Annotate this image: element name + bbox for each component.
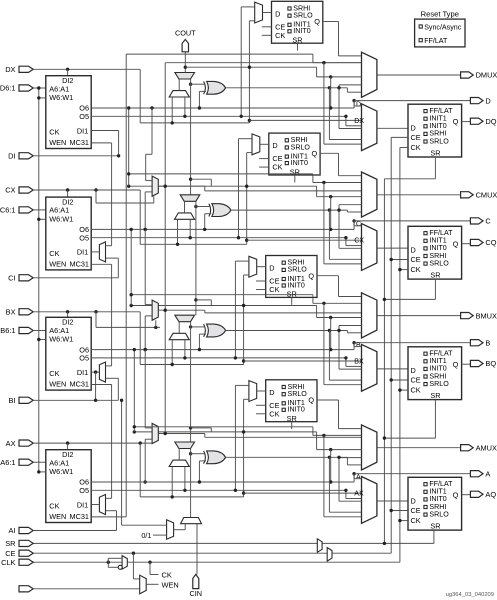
- svg-text:WEN: WEN: [49, 512, 66, 521]
- svg-text:INIT0: INIT0: [293, 27, 310, 35]
- svg-text:D: D: [275, 9, 280, 18]
- svg-text:SR: SR: [292, 36, 302, 45]
- svg-text:MC31: MC31: [70, 512, 89, 521]
- svg-text:CLK: CLK: [1, 558, 15, 567]
- svg-text:D: D: [269, 388, 274, 397]
- svg-text:CE: CE: [5, 549, 15, 558]
- svg-text:CE: CE: [411, 376, 421, 385]
- svg-text:DX: DX: [5, 65, 15, 74]
- svg-text:SRLO: SRLO: [291, 143, 311, 151]
- svg-text:SR: SR: [287, 290, 297, 299]
- svg-text:FF/LAT: FF/LAT: [424, 37, 448, 45]
- svg-text:CX: CX: [354, 238, 364, 245]
- svg-text:SRLO: SRLO: [293, 12, 313, 20]
- svg-text:MC31: MC31: [70, 259, 89, 268]
- svg-text:A: A: [485, 469, 490, 478]
- svg-text:SR: SR: [290, 167, 300, 176]
- svg-text:DI: DI: [8, 152, 15, 161]
- svg-text:AQ: AQ: [485, 490, 496, 499]
- svg-text:O5: O5: [79, 486, 89, 495]
- svg-text:W6:W1: W6:W1: [49, 214, 73, 223]
- svg-text:SRLO: SRLO: [429, 380, 449, 388]
- svg-text:B: B: [485, 338, 490, 347]
- svg-text:W6:W1: W6:W1: [49, 467, 73, 476]
- svg-text:CK: CK: [269, 285, 279, 294]
- svg-text:CK: CK: [49, 128, 59, 137]
- svg-text:BX: BX: [354, 359, 364, 366]
- svg-text:CK: CK: [411, 516, 421, 525]
- svg-text:CK: CK: [49, 369, 59, 378]
- svg-text:Reset Type: Reset Type: [421, 10, 459, 19]
- svg-text:CE: CE: [411, 133, 421, 142]
- svg-text:SR: SR: [287, 414, 297, 423]
- svg-text:DX: DX: [354, 118, 364, 125]
- svg-text:AX: AX: [6, 439, 16, 448]
- svg-text:O5: O5: [79, 233, 89, 242]
- svg-text:CE: CE: [411, 506, 421, 515]
- svg-text:CX: CX: [5, 186, 15, 195]
- svg-text:Sync/Async: Sync/Async: [424, 23, 462, 31]
- svg-text:W6:W1: W6:W1: [49, 335, 73, 344]
- svg-text:SR: SR: [430, 522, 440, 531]
- svg-text:CE: CE: [411, 255, 421, 264]
- svg-text:SRLO: SRLO: [288, 266, 308, 274]
- svg-text:D: D: [269, 264, 274, 273]
- svg-text:CK: CK: [411, 386, 421, 395]
- svg-text:CK: CK: [269, 409, 279, 418]
- svg-text:Q: Q: [314, 17, 320, 26]
- svg-text:WEN: WEN: [49, 138, 66, 147]
- svg-text:D: D: [272, 141, 277, 150]
- svg-text:CK: CK: [49, 502, 59, 511]
- svg-text:MC31: MC31: [70, 380, 89, 389]
- svg-text:SR: SR: [430, 391, 440, 400]
- svg-text:O5: O5: [79, 112, 89, 121]
- svg-text:DI1: DI1: [77, 248, 88, 257]
- svg-text:BX: BX: [6, 308, 16, 317]
- svg-text:C: C: [356, 221, 361, 228]
- svg-text:BMUX: BMUX: [476, 311, 497, 320]
- svg-text:O5: O5: [79, 354, 89, 363]
- svg-text:CIN: CIN: [190, 589, 203, 598]
- svg-text:SR: SR: [430, 271, 440, 280]
- svg-text:SR: SR: [5, 539, 15, 548]
- svg-text:SRLO: SRLO: [429, 510, 449, 518]
- svg-text:WEN: WEN: [49, 259, 66, 268]
- svg-text:B6:1: B6:1: [0, 326, 15, 335]
- svg-text:SRLO: SRLO: [429, 137, 449, 145]
- svg-text:Q: Q: [453, 490, 459, 499]
- svg-text:WEN: WEN: [49, 380, 66, 389]
- svg-text:Q: Q: [453, 360, 459, 369]
- svg-text:INIT0: INIT0: [288, 406, 305, 414]
- svg-text:Q: Q: [308, 396, 314, 405]
- svg-text:ug364_03_040209: ug364_03_040209: [446, 592, 494, 598]
- svg-text:D: D: [411, 124, 416, 133]
- svg-text:COUT: COUT: [175, 29, 196, 38]
- svg-text:D: D: [356, 101, 361, 108]
- svg-text:CK: CK: [162, 571, 172, 580]
- svg-text:CMUX: CMUX: [476, 191, 497, 200]
- svg-text:D: D: [485, 96, 490, 105]
- svg-text:D: D: [411, 497, 416, 506]
- svg-text:CK: CK: [411, 143, 421, 152]
- svg-text:Q: Q: [453, 239, 459, 248]
- svg-text:CQ: CQ: [485, 238, 496, 247]
- svg-text:DMUX: DMUX: [476, 71, 497, 80]
- svg-text:AI: AI: [9, 526, 16, 535]
- svg-text:D6:1: D6:1: [0, 84, 16, 93]
- svg-text:A: A: [356, 474, 361, 481]
- svg-text:D: D: [411, 366, 416, 375]
- svg-text:DI1: DI1: [77, 368, 88, 377]
- svg-text:DI1: DI1: [77, 126, 88, 135]
- svg-text:CK: CK: [411, 265, 421, 274]
- svg-text:INIT0: INIT0: [291, 159, 308, 167]
- svg-text:CK: CK: [275, 31, 285, 40]
- svg-text:DQ: DQ: [485, 117, 496, 126]
- svg-text:SRLO: SRLO: [429, 259, 449, 267]
- svg-text:BQ: BQ: [485, 359, 496, 368]
- svg-text:0/1: 0/1: [141, 531, 151, 540]
- svg-text:Q: Q: [312, 149, 318, 158]
- svg-text:WEN: WEN: [162, 581, 179, 590]
- svg-text:BI: BI: [9, 396, 16, 405]
- svg-text:Q: Q: [453, 117, 459, 126]
- svg-text:Q: Q: [308, 271, 314, 280]
- svg-text:CK: CK: [49, 249, 59, 258]
- svg-text:SRLO: SRLO: [288, 390, 308, 398]
- svg-text:AMUX: AMUX: [476, 443, 497, 452]
- svg-text:C6:1: C6:1: [0, 206, 16, 215]
- svg-text:SR: SR: [430, 149, 440, 158]
- svg-text:D: D: [411, 246, 416, 255]
- svg-text:DI1: DI1: [77, 500, 88, 509]
- svg-text:A6:1: A6:1: [0, 458, 15, 467]
- svg-text:W6:W1: W6:W1: [49, 93, 73, 102]
- svg-text:C: C: [485, 217, 491, 226]
- svg-text:CK: CK: [272, 163, 282, 172]
- svg-text:MC31: MC31: [70, 138, 89, 147]
- svg-text:CI: CI: [8, 274, 15, 283]
- svg-text:INIT0: INIT0: [288, 281, 305, 289]
- svg-text:AX: AX: [354, 491, 364, 498]
